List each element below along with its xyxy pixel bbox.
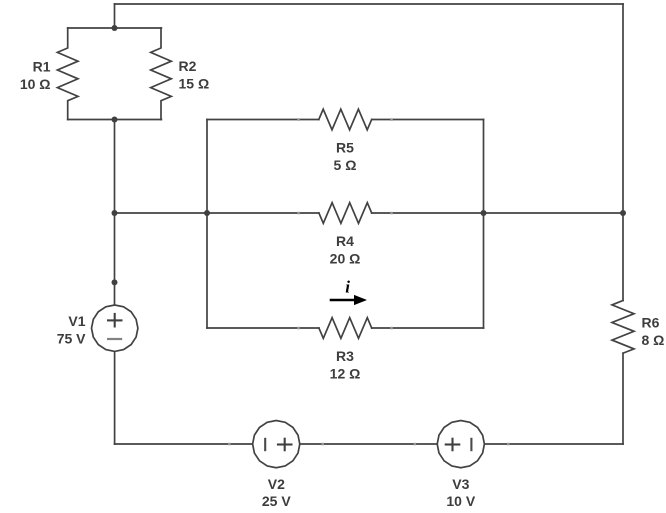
- svg-text:R1: R1: [33, 59, 51, 75]
- resistor R3: [319, 318, 372, 339]
- wire R5 row left: [207, 119, 319, 121]
- node junction dot box left R4 row: [204, 210, 210, 216]
- svg-text:5 Ω: 5 Ω: [334, 157, 357, 173]
- svg-text:10 V: 10 V: [446, 493, 475, 509]
- svg-text:V1: V1: [68, 313, 85, 329]
- wire R3 row right: [372, 327, 484, 329]
- pin mark V2 left: [228, 443, 231, 446]
- voltage source V2: [253, 421, 300, 468]
- wire parallel block bottom rail: [68, 119, 162, 121]
- node junction dot parallel bottom: [112, 117, 118, 123]
- wire top rail: [115, 3, 624, 5]
- wire R3 row left: [207, 327, 319, 329]
- V2 minus terminal bar: [264, 438, 266, 451]
- resistor R5: [319, 109, 372, 130]
- V3 plus sign: [445, 438, 461, 452]
- wire parallel block top rail: [68, 27, 162, 29]
- pin mark V3 left: [414, 443, 417, 446]
- wire middle rail right: [484, 212, 624, 214]
- resistor R1: [57, 28, 78, 120]
- wire left drop to parallel block: [114, 4, 116, 28]
- wire left vertical to middle rail: [114, 120, 116, 214]
- node junction dot parallel top: [112, 25, 118, 31]
- V1 plus sign: [107, 313, 123, 328]
- pin mark R5 right: [390, 118, 393, 121]
- wire right rail top: [622, 4, 624, 301]
- svg-text:8 Ω: 8 Ω: [642, 332, 665, 348]
- svg-text:R3: R3: [336, 348, 354, 364]
- svg-text:i: i: [345, 278, 350, 297]
- resistor R4: [319, 203, 372, 224]
- wire box right vertical: [483, 120, 485, 329]
- svg-text:R2: R2: [179, 58, 197, 74]
- wire bottom rail segment 1: [115, 443, 253, 445]
- pin mark R5 left: [297, 118, 300, 121]
- wire R4 row left: [207, 212, 319, 214]
- svg-text:15 Ω: 15 Ω: [179, 75, 210, 91]
- svg-text:R5: R5: [336, 140, 354, 156]
- V3 minus terminal bar: [470, 438, 472, 451]
- svg-text:10 Ω: 10 Ω: [20, 76, 51, 92]
- V1 minus sign: [107, 338, 122, 340]
- wire left vertical to V1: [114, 213, 116, 305]
- node junction dot box right R4 row: [481, 210, 487, 216]
- wire bottom rail segment 3: [484, 443, 623, 445]
- svg-text:V3: V3: [452, 476, 469, 492]
- node junction dot right rail middle: [620, 210, 626, 216]
- voltage source V1: [92, 305, 138, 351]
- resistor R6: [612, 301, 634, 354]
- svg-text:25 V: 25 V: [262, 493, 291, 509]
- current arrow i: [330, 295, 367, 305]
- voltage source V3: [437, 421, 484, 468]
- wire box left vertical: [206, 120, 208, 329]
- resistor R2: [151, 28, 172, 120]
- svg-text:20 Ω: 20 Ω: [330, 250, 361, 266]
- node junction dot middle rail left: [112, 210, 118, 216]
- V2 plus sign: [277, 438, 293, 452]
- svg-text:R4: R4: [336, 233, 354, 249]
- wire V1 bottom: [114, 351, 116, 444]
- wire R4 row right inside box: [372, 212, 484, 214]
- pin mark R3 right: [390, 327, 393, 330]
- wire right rail bottom: [622, 353, 624, 444]
- svg-text:12 Ω: 12 Ω: [330, 365, 361, 381]
- pin mark V3 right: [507, 443, 510, 446]
- pin mark V2 right: [322, 443, 325, 446]
- wire bottom rail segment 2: [300, 443, 437, 445]
- node junction dot above V1: [112, 279, 118, 285]
- svg-text:V2: V2: [268, 476, 285, 492]
- wire R5 row right: [372, 119, 484, 121]
- pin mark R4 right: [390, 212, 393, 215]
- pin mark R4 left: [297, 212, 300, 215]
- pin mark R3 left: [297, 327, 300, 330]
- svg-text:R6: R6: [642, 315, 660, 331]
- wire middle rail left: [115, 212, 208, 214]
- svg-text:75 V: 75 V: [57, 331, 86, 347]
